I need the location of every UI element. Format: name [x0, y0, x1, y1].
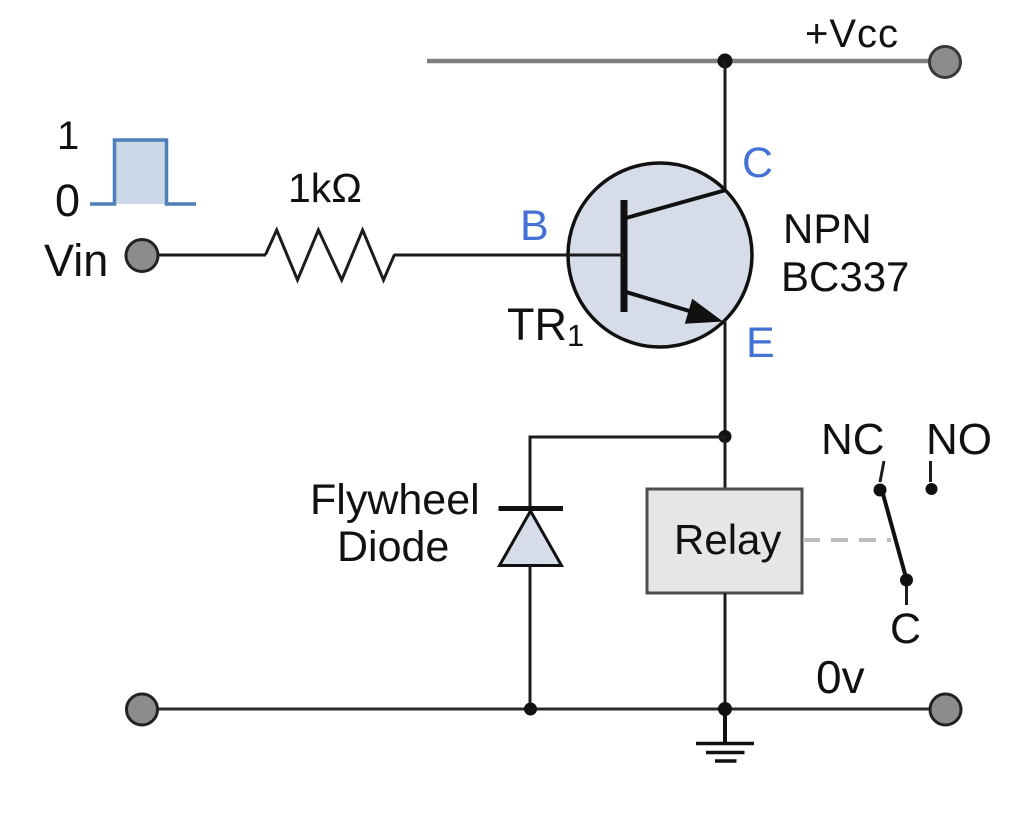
wire NO stub — [929, 461, 932, 482]
switch contact NC — [874, 484, 887, 497]
wire diode D1 anode to 0v rail — [529, 565, 532, 709]
svg-text:NO: NO — [926, 415, 992, 464]
svg-text:B: B — [520, 202, 549, 250]
ground stub — [723, 709, 727, 743]
svg-text:C: C — [890, 605, 921, 653]
ground bar 1 — [696, 742, 754, 746]
svg-text:Vin: Vin — [44, 235, 108, 286]
wire junction to relay coil — [724, 436, 727, 490]
input pulse waveform fill — [115, 140, 167, 204]
wire NC stub — [880, 461, 884, 482]
wire junction to flywheel diode D1 — [530, 437, 725, 510]
svg-text:+Vcc: +Vcc — [805, 12, 899, 56]
junction node collector/Vcc — [718, 54, 733, 69]
transistor TR1 emitter arrow — [685, 299, 723, 324]
flywheel diode D1 triangle — [500, 511, 562, 566]
relay K1 coil box — [647, 489, 802, 593]
svg-text:E: E — [746, 319, 775, 367]
terminal Vin — [126, 240, 158, 272]
input pulse waveform trace — [90, 140, 196, 204]
terminal +Vcc — [930, 47, 961, 78]
switch arm NC to C — [883, 494, 905, 574]
wire emitter down — [724, 320, 727, 437]
svg-text:BC337: BC337 — [781, 253, 909, 300]
wire resistor R1 to base — [394, 254, 624, 257]
wire bottom 0v rail — [150, 708, 938, 711]
svg-text:C: C — [742, 139, 773, 187]
svg-text:1: 1 — [57, 114, 79, 158]
svg-text:1kΩ: 1kΩ — [288, 165, 362, 211]
terminal 0v left — [127, 694, 158, 725]
wire top +Vcc rail — [427, 59, 938, 64]
svg-text:NC: NC — [821, 415, 885, 464]
transistor TR1 emitter stroke — [626, 292, 716, 319]
svg-text:Diode: Diode — [337, 523, 449, 571]
wire Vin to resistor R1 — [158, 254, 266, 257]
transistor TR1 base bar — [621, 200, 628, 312]
svg-text:Relay: Relay — [674, 516, 781, 563]
flywheel diode D1 cathode bar — [499, 506, 564, 511]
terminal 0v right — [930, 694, 961, 725]
transistor TR1 body — [568, 163, 752, 347]
svg-text:0v: 0v — [816, 651, 865, 703]
junction node relay/ground — [718, 702, 732, 716]
dashed actuation link relay to switch — [803, 538, 891, 542]
wire collector to rail — [724, 61, 727, 192]
ground bar 2 — [706, 751, 745, 755]
svg-text:NPN: NPN — [783, 205, 872, 252]
svg-text:Flywheel: Flywheel — [310, 476, 480, 524]
switch contact C common — [900, 574, 913, 587]
ground bar 3 — [715, 759, 737, 763]
switch contact NO — [926, 483, 938, 495]
transistor TR1 collector stroke — [626, 190, 726, 218]
resistor R1 1k zigzag — [266, 230, 395, 280]
wire relay coil to ground rail — [724, 593, 727, 709]
junction node diode/0v — [524, 703, 537, 716]
svg-text:0: 0 — [55, 175, 80, 226]
wire C stub — [905, 586, 908, 605]
junction node emitter/diode/relay — [719, 430, 732, 443]
